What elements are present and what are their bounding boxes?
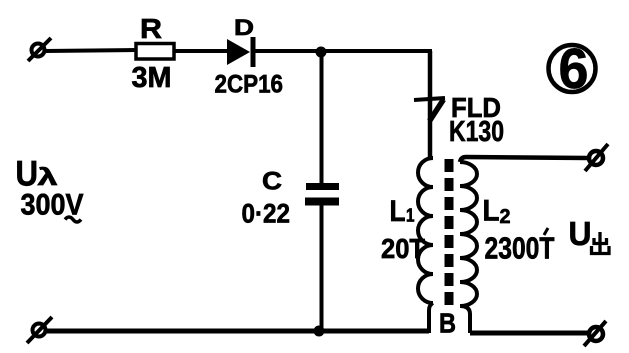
wire: resistor to diode [174,49,228,53]
svg-text:R: R [140,13,162,44]
svg-text:6: 6 [559,37,589,101]
svg-text:K130: K130 [449,116,504,148]
wire: vertical down right side to FLD [428,51,433,160]
svg-text:3M: 3M [132,62,172,94]
wire: L1 bottom to bottom rail [429,303,433,333]
svg-text:2: 2 [500,206,511,228]
svg-text:2300T: 2300T [485,231,555,266]
resistor R [136,44,174,60]
wire: bottom-right rail [470,331,588,336]
svg-text:2CP16: 2CP16 [215,71,284,99]
wire: diode to corner [255,49,432,53]
svg-text:300V: 300V [21,189,84,222]
svg-text:D: D [234,15,254,40]
input terminal top-left [28,38,51,61]
svg-text:L: L [483,195,500,228]
node junction top (cap branch) [316,47,327,58]
wire: cap branch vertical bottom [320,205,324,331]
svg-text:0·22: 0·22 [242,199,291,229]
figure number 6 circled [549,37,596,101]
input terminal bottom-left [27,317,52,343]
svg-text:L: L [390,195,406,228]
svg-text:C: C [262,168,282,196]
node junction bottom (cap branch) [314,326,325,337]
wire: cap branch vertical top [320,52,324,184]
spark-gap FLD symbol [414,98,445,121]
output terminal bottom-right [584,321,606,346]
transformer secondary coil L2 [460,162,477,306]
bottom rail wire [45,329,429,334]
accent over T [544,228,548,235]
subscript chu (output) glyph [592,232,610,254]
wire: L2 top corner to output [460,157,588,162]
output terminal top-right [585,144,608,171]
svg-text:U: U [569,215,592,252]
svg-text:λ: λ [38,164,59,191]
capacitor C plates [305,183,339,206]
diode D [227,37,256,67]
svg-text:B: B [439,308,456,339]
wire top: terminal to resistor [45,50,136,51]
transformer core [445,159,454,305]
transformer primary coil L1 [418,158,433,303]
AC tilde under V [65,217,81,222]
wire: L2 bottom to bottom-right rail [460,306,470,333]
svg-text:1: 1 [406,206,415,226]
svg-text:20T: 20T [381,233,425,264]
